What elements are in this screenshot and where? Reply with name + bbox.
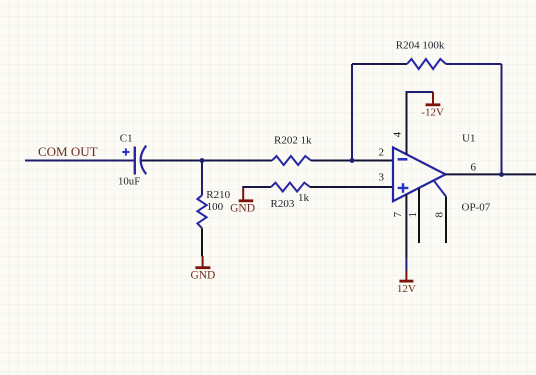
- svg-text:2: 2: [379, 147, 385, 159]
- svg-text:U1: U1: [462, 133, 475, 145]
- resistor R204: [407, 59, 446, 69]
- svg-text:R202 1k: R202 1k: [274, 135, 312, 147]
- wire: R203 to op-amp pin 3: [310, 186, 393, 188]
- wire: feedback vertical left: [351, 64, 353, 161]
- svg-text:8: 8: [434, 212, 446, 218]
- svg-text:1: 1: [407, 212, 419, 218]
- wire: C1 to R202 with tap: [141, 160, 272, 162]
- wire: feedback top left: [352, 63, 407, 65]
- resistor R203: [271, 183, 310, 192]
- svg-text:OP-07: OP-07: [462, 202, 491, 214]
- wire: feedback top right: [446, 63, 502, 65]
- wire: feedback vertical right: [501, 64, 503, 175]
- svg-text:COM OUT: COM OUT: [38, 144, 98, 159]
- wire: op-amp output: [445, 173, 536, 175]
- svg-text:3: 3: [379, 172, 385, 184]
- svg-text:100: 100: [207, 201, 224, 213]
- minus symbol: [398, 158, 408, 161]
- svg-text:6: 6: [471, 162, 477, 174]
- svg-text:GND: GND: [230, 203, 255, 215]
- svg-text:1k: 1k: [298, 192, 310, 204]
- svg-text:10uF: 10uF: [118, 175, 140, 187]
- wire: pin7 to 12V: [405, 258, 407, 271]
- wire: pin4 to -12V: [406, 91, 434, 93]
- pin 7 wire down: [405, 195, 407, 259]
- junction at C1/R210 tap: [200, 158, 205, 163]
- svg-text:GND: GND: [190, 269, 215, 281]
- plus symbol: [398, 183, 409, 192]
- power port GND (at R203): [239, 188, 254, 201]
- svg-text:-12V: -12V: [421, 107, 444, 119]
- pin 1 stub: [418, 189, 420, 244]
- wire: R210 to GND: [201, 228, 203, 256]
- pin 4 wire up: [406, 92, 408, 154]
- power port -12V: [426, 92, 441, 105]
- svg-text:R210: R210: [206, 189, 230, 201]
- wire: junction down to R210: [201, 161, 203, 196]
- capacitor C1: [122, 146, 146, 175]
- power port 12V: [399, 271, 413, 281]
- wire: R202 to op-amp pin 2: [311, 160, 393, 162]
- resistor R210: [197, 195, 206, 228]
- wire: GND to R203: [242, 186, 271, 188]
- op-amp U1: [393, 147, 446, 201]
- svg-text:R203: R203: [271, 198, 295, 210]
- svg-text:C1: C1: [120, 133, 133, 145]
- junction at output: [499, 172, 504, 177]
- svg-text:7: 7: [392, 211, 404, 217]
- resistor R202: [272, 156, 311, 165]
- svg-text:R204 100k: R204 100k: [396, 40, 445, 52]
- junction feedback tap: [350, 158, 355, 163]
- wire: input wire from left edge to C1: [25, 160, 134, 162]
- svg-text:4: 4: [392, 131, 404, 137]
- svg-text:12V: 12V: [397, 283, 416, 295]
- power port GND (bottom): [195, 256, 210, 268]
- pin 8 stub: [434, 180, 447, 243]
